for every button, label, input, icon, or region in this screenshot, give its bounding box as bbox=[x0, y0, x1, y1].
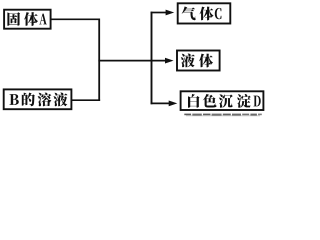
arrowhead into 气体C bbox=[166, 10, 175, 16]
label 液体 bbox=[181, 54, 195, 68]
wire middle from bus to 液体 arrow bbox=[98, 60, 166, 62]
scan artifact: cropped text line below box D bbox=[184, 114, 191, 116]
arrowhead into 液体 bbox=[165, 58, 174, 64]
wire from B的溶液 to vertical bus bbox=[71, 99, 100, 101]
wire from 固体A to vertical bus bbox=[51, 18, 100, 20]
box 气体C (gas C) bbox=[178, 3, 231, 23]
label B的溶液 bbox=[9, 94, 18, 105]
wire bottom branch to 白色沉淀D arrow bbox=[151, 102, 170, 104]
arrowhead into 白色沉淀D bbox=[169, 101, 178, 107]
branch vertical line bbox=[151, 12, 153, 105]
label 气体C bbox=[182, 7, 196, 21]
vertical bus joining left boxes bbox=[98, 18, 100, 101]
wire top branch to 气体C arrow bbox=[151, 12, 167, 14]
box 白色沉淀D (white precipitate D) bbox=[181, 91, 264, 110]
label 白色沉淀D bbox=[188, 94, 200, 108]
box 固体A (solid A) bbox=[4, 10, 51, 29]
box B的溶液 (solution of B) bbox=[4, 89, 72, 109]
label 固体A bbox=[7, 12, 20, 26]
box 液体 (liquid) bbox=[177, 51, 220, 71]
